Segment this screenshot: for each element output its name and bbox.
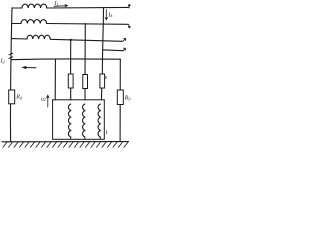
ground hatching [3,142,128,148]
arrow pointing left under bus [24,67,36,69]
wire: column 3 from resistor to box top [100,88,102,100]
svg-text:t: t [106,129,108,136]
resistor R1 (in column 1) [68,74,73,88]
arrow tick at phase C right end [123,39,126,42]
wire: phase A left stub [12,7,22,9]
resistor R0 on right vertical [117,90,123,105]
wire: left vertical grounding conductor [11,8,12,142]
arrow tick at tap line right end [123,48,125,51]
arrow for I_L [54,5,68,7]
wire: phase C left stub [12,38,27,40]
wire: dropper from phase B down (column 2) [84,24,86,75]
wire: dropper from phase C down (column 1) [70,40,72,74]
wire: phase B line to right edge [47,23,129,26]
winding W1 inside box [68,104,70,139]
svg-text:R0: R0 [124,96,131,102]
wire: dropper from phase A down (column 3) [102,8,103,74]
arrow tick at phase B right end [128,25,130,28]
resistor R2 (in column 2) [83,75,88,89]
wire: phase B left stub [12,23,21,25]
transformer box [53,100,105,140]
inductor L3 (phase C reactor) [27,35,50,39]
inductor L1 (phase A reactor) [22,4,47,8]
wire: column 1 from resistor to box top [70,88,72,100]
wire: right vertical from bus to ground [119,59,121,141]
svg-text:Ik: Ik [107,11,113,18]
svg-text:z: z [104,75,108,81]
wire: horizontal neutral bus [11,58,120,61]
wire: tap line from node at dropper A going right [103,49,123,52]
resistor R3 (in column 3) [100,74,105,88]
inductor L2 (phase B reactor) [21,20,47,24]
ground line [2,141,129,143]
svg-text:u2: u2 [41,96,46,102]
wire: phase C line to right [50,39,122,41]
arrow tick at phase A right end [128,4,130,8]
winding W3 inside box [98,104,100,139]
arrow barbs (current up) on left vertical [9,53,13,58]
svg-text:Id: Id [0,59,6,65]
wire: column 2 from resistor to box top [84,89,86,101]
winding W2 inside box [83,104,85,139]
svg-text:Rd: Rd [15,95,23,101]
wire: phase A line to right edge [47,6,129,9]
resistor Rd on left vertical [9,90,15,104]
junction at phase C and column 1 [70,39,72,41]
arrow I_k (current down dropper A) [105,10,107,20]
arrow u2 (voltage annotation left of box) [47,95,49,107]
wire: from bus down to box top [54,59,56,100]
